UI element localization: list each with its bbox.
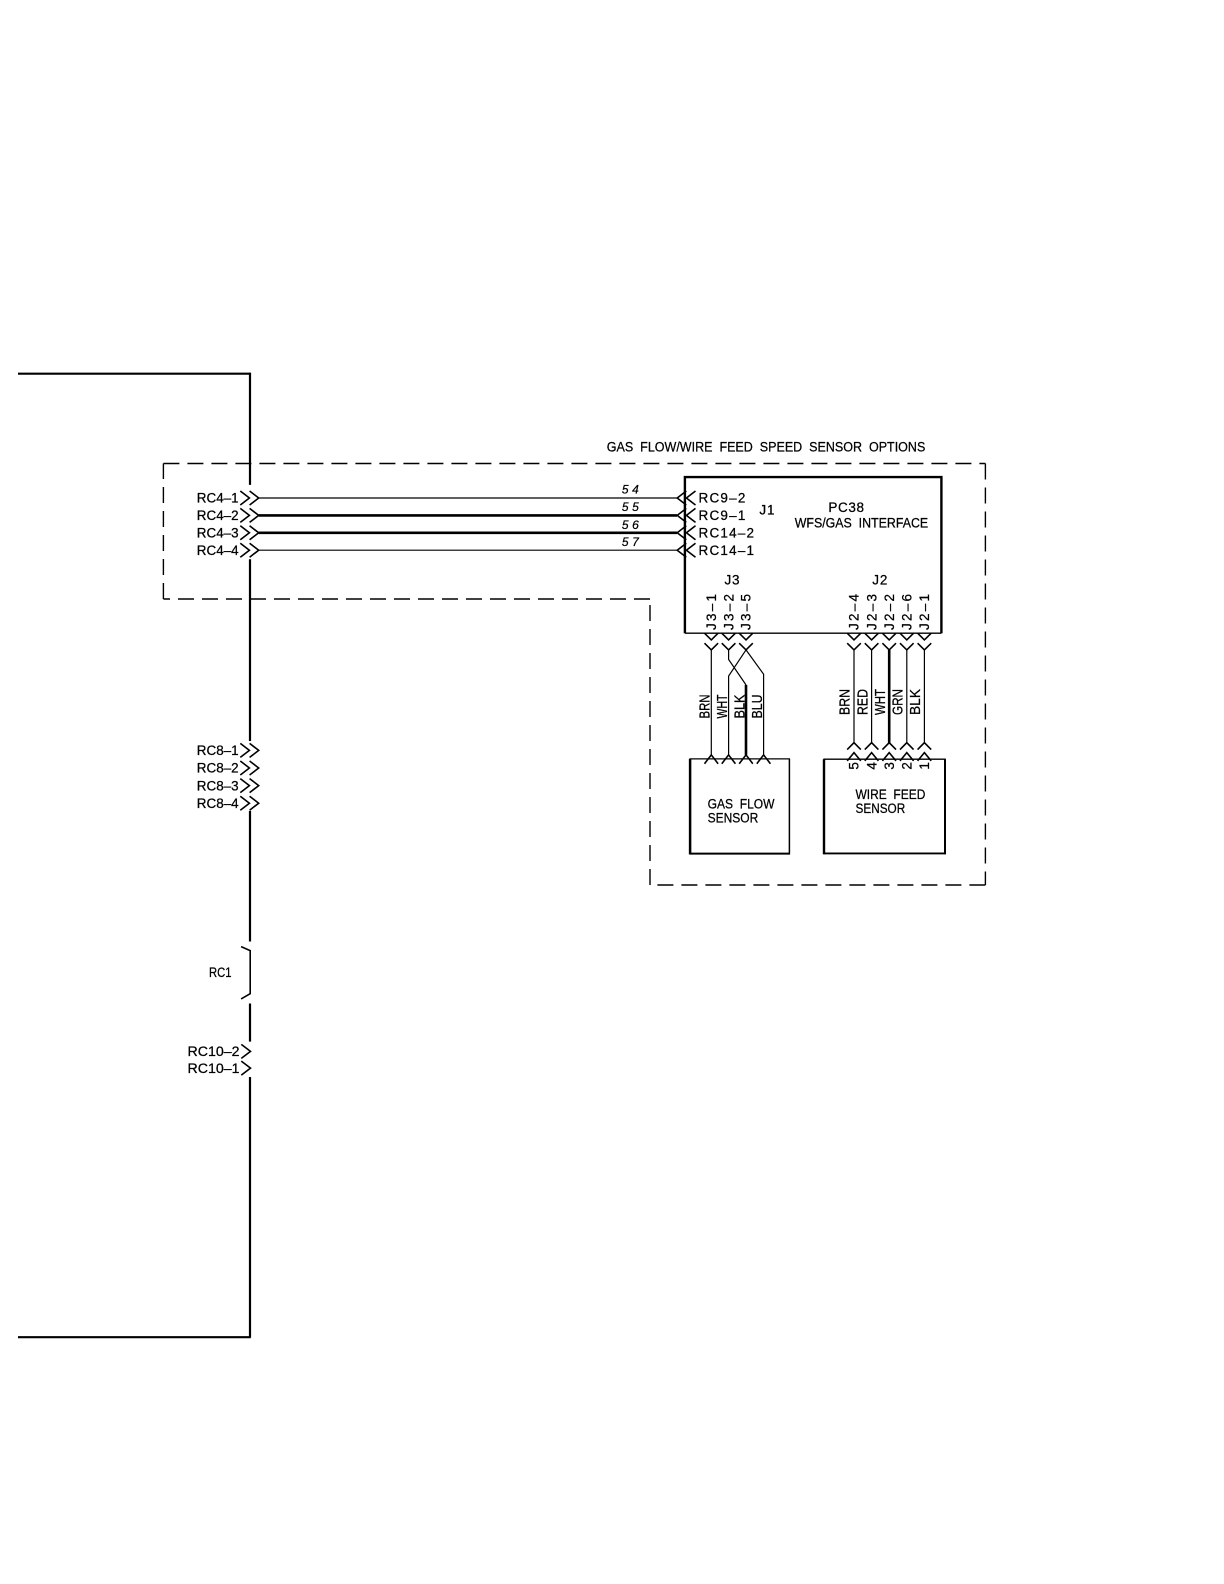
wire feed sensor pin 2 entry chevrons [900,743,914,761]
gas flow sensor box left edge [689,759,692,855]
wire J2-1 BLK [923,650,925,743]
svg-text:RC14–2: RC14–2 [699,526,756,541]
wire feed sensor pin 3 entry chevrons [882,743,896,761]
svg-text:WFS/GAS INTERFACE: WFS/GAS INTERFACE [795,515,929,530]
pin J3-2 chevrons [722,633,736,650]
pin RC14-1 (J1) chevrons [677,543,695,557]
svg-text:J2–2: J2–2 [882,594,897,630]
wire feed sensor pin 4 entry chevrons [865,743,879,761]
svg-text:GRN: GRN [891,689,907,715]
svg-text:RC4–3: RC4–3 [197,526,239,541]
pin J3-5 chevrons [739,633,753,650]
svg-text:RC4–4: RC4–4 [197,543,239,558]
svg-text:BLK: BLK [732,694,748,718]
svg-text:55: 55 [622,500,643,514]
gas flow sensor entry chevron pin4 [757,755,771,764]
svg-text:1: 1 [917,762,932,770]
svg-text:SENSOR: SENSOR [708,810,759,825]
gas flow sensor entry chevron pin3 [739,755,753,764]
connector RC4-4 [197,543,259,558]
connector RC4-1 [197,491,259,506]
wire: bottom-left feeder horizontal [18,1336,251,1338]
wire 55 RC4-2 to RC9-1 (bold) [259,514,677,517]
pin RC9-1 (J1) chevrons [677,508,695,522]
connector RC8-1 [197,743,259,758]
svg-text:RC4–2: RC4–2 [197,508,239,523]
wire: left vertical trunk segment 3 [249,811,251,942]
wire J3-2 to BLK (diagonal) [729,650,746,685]
svg-text:WHT: WHT [715,694,731,718]
svg-text:RC10–2: RC10–2 [188,1044,240,1059]
gas flow sensor box right edge [788,759,790,855]
wire feed sensor pin 1 entry chevrons [918,743,932,761]
wire: left vertical trunk segment 4 [249,1004,251,1042]
connector RC1 (inline plug symbol) [209,947,250,999]
gas flow sensor box bottom edge [690,853,791,855]
wire J2-4 BRN [853,650,855,743]
gas flow sensor entry chevron pin2 [722,755,736,764]
svg-text:J2–6: J2–6 [900,594,915,630]
svg-text:J2: J2 [872,573,888,588]
pin J2-2 chevrons [882,633,896,650]
pin J3-1 chevrons [705,633,719,650]
wire feed sensor box bottom edge [823,852,945,854]
module PC38 WFS/GAS INTERFACE box [685,477,942,633]
pin RC9-2 (J1) chevrons [677,491,695,505]
dashed enclosure left edge [162,464,164,600]
svg-text:RC8–4: RC8–4 [197,796,239,811]
connector RC8-4 [197,796,259,811]
pin J2-6 chevrons [900,633,914,650]
svg-text:BLU: BLU [750,695,766,719]
wire: left vertical trunk segment 5 [249,1077,251,1337]
connector RC8-2 [197,761,259,776]
pin RC14-2 (J1) chevrons [677,526,695,540]
connector RC8-3 [197,778,259,793]
wire 54 RC4-1 to RC9-2 [259,497,677,499]
svg-text:RC4–1: RC4–1 [197,491,239,506]
svg-text:3: 3 [882,762,897,770]
module GAS FLOW SENSOR box [690,758,791,760]
svg-text:WHT: WHT [873,689,889,715]
gas flow sensor entry chevron pin1 [705,755,719,764]
connector RC10-2 [188,1044,251,1059]
svg-text:PC38: PC38 [828,500,864,515]
svg-text:BLK: BLK [908,689,924,715]
dashed enclosure top edge [163,463,985,465]
dashed enclosure left-arm bottom edge [163,598,650,600]
svg-text:RC9–1: RC9–1 [699,508,747,523]
wire J3-5 to WHT (diagonal) [729,650,746,755]
svg-text:J2–1: J2–1 [917,594,932,630]
wire: left vertical trunk segment 2 [249,559,251,741]
svg-text:RED: RED [855,689,871,715]
wire: top-left feeder horizontal [18,373,250,375]
wire BRN J3-1 to gas flow sensor [710,650,712,755]
svg-text:J3: J3 [724,573,740,588]
svg-text:RC9–2: RC9–2 [699,491,747,506]
pin J2-4 chevrons [847,633,861,650]
svg-text:56: 56 [622,518,643,532]
wire feed sensor pin 5 entry chevrons [847,743,861,761]
svg-text:RC8–3: RC8–3 [197,778,239,793]
wire 56 RC4-3 to RC14-2 (bold) [259,531,677,534]
svg-text:5: 5 [847,762,862,770]
svg-text:RC1: RC1 [209,965,232,980]
wire J2-6 GRN [906,650,908,743]
svg-text:J1: J1 [759,503,775,518]
wire J2-2 WHT (bold) [888,650,891,743]
svg-text:BRN: BRN [698,695,714,719]
svg-text:RC10–1: RC10–1 [188,1061,240,1076]
module WIRE FEED SENSOR box [823,758,945,760]
wire BLK vertical (bold) [745,685,748,755]
dashed enclosure bottom edge [650,884,985,886]
wire J2-3 RED [871,650,873,743]
connector RC4-2 [197,508,259,523]
svg-text:RC8–2: RC8–2 [197,761,239,776]
svg-text:J3–1: J3–1 [704,594,719,630]
svg-text:GAS FLOW: GAS FLOW [708,797,775,812]
svg-text:J2–3: J2–3 [864,594,879,630]
dashed enclosure right edge [984,464,986,886]
svg-text:J3–5: J3–5 [739,594,754,630]
svg-text:RC14–1: RC14–1 [699,543,756,558]
svg-text:4: 4 [864,762,879,770]
svg-text:J2–4: J2–4 [847,594,862,630]
svg-text:54: 54 [622,483,643,497]
connector RC10-1 [188,1061,251,1076]
wire: left vertical trunk segment 1 [249,373,251,485]
svg-text:SENSOR: SENSOR [856,801,906,816]
svg-text:GAS FLOW/WIRE FEED SPEED S: GAS FLOW/WIRE FEED SPEED SENSOR OPTIONS [607,440,926,455]
svg-text:J3–2: J3–2 [721,594,736,630]
svg-text:BRN: BRN [838,689,854,715]
svg-text:RC8–1: RC8–1 [197,743,239,758]
svg-text:57: 57 [622,535,643,549]
wire J3-5 to BLU (diagonal) [746,650,764,755]
wire 57 RC4-4 to RC14-1 [259,549,677,551]
wire feed sensor box right edge [944,759,946,854]
dashed enclosure inner vertical edge [649,599,651,885]
connector RC4-3 [197,526,259,541]
module PC38 box bottom edge (thin) [685,632,942,634]
pin J2-1 chevrons [918,633,932,650]
wire feed sensor box left edge [823,759,825,854]
pin J2-3 chevrons [865,633,879,650]
svg-text:2: 2 [900,762,915,770]
